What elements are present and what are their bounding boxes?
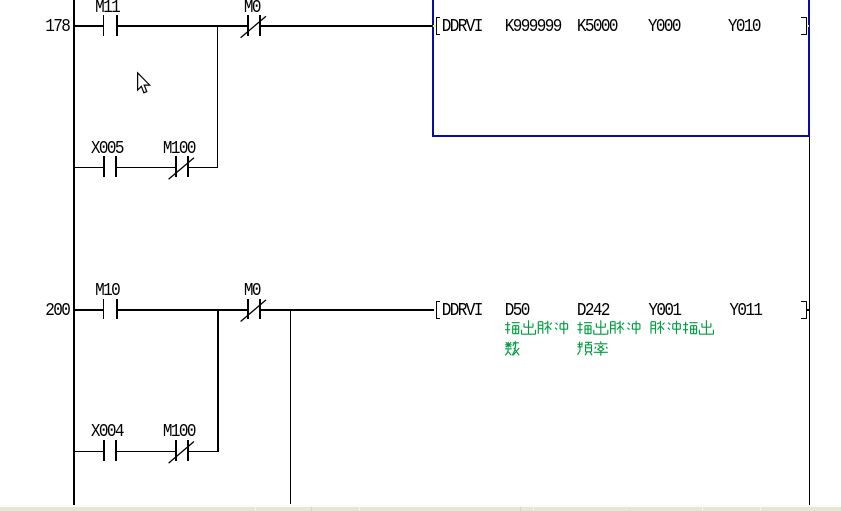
slash of NC contact M0 rung1	[241, 16, 266, 38]
close bracket rung1	[801, 17, 807, 36]
selection box (blue cursor rectangle)	[432, 0, 809, 137]
contact X004 bar2	[115, 440, 117, 461]
label X004	[91, 422, 123, 440]
label M0 rung2	[244, 281, 260, 299]
drop vertical to next rung	[290, 309, 292, 504]
open bracket rung2	[436, 301, 440, 320]
operand Y010	[728, 17, 760, 35]
contact X005 bar1	[103, 156, 105, 177]
comment text row1 group1: shu chu mai chong (output pulse) under D50	[505, 320, 567, 334]
contact X005 bar2	[115, 156, 117, 177]
branch2 wire seg3	[189, 451, 218, 453]
strip segment divider 1	[255, 506, 256, 511]
left power rail	[73, 0, 75, 505]
contact M0 rung2 bar1	[247, 299, 249, 320]
label M0	[244, 0, 260, 17]
label M100	[163, 139, 195, 157]
wire rung2 seg3	[261, 309, 435, 311]
contact M0 rung2 bar2	[259, 299, 261, 320]
branch2 wire seg1	[74, 451, 103, 453]
slash of NC contact M100 branch2	[169, 442, 194, 464]
label M10	[95, 281, 119, 299]
contact M10 bar2	[116, 299, 118, 320]
comment text row1 group2: shu chu mai chong under D242	[578, 320, 640, 334]
wire rung2 seg2	[118, 309, 247, 311]
close bracket rung2	[801, 301, 807, 320]
strip segment divider 6	[626, 506, 627, 511]
operand K999999	[505, 17, 561, 35]
comment text row2: shu (count) under D50	[505, 341, 519, 355]
open bracket rung1	[436, 17, 440, 36]
strip segment divider 3	[359, 506, 360, 511]
branch vertical rung1	[217, 25, 219, 168]
strip segment divider 2	[311, 507, 312, 511]
mouse cursor arrow	[138, 73, 150, 93]
yellow wire nub left	[433, 25, 437, 27]
label M100 rung2	[163, 422, 195, 440]
operand Y001	[648, 301, 680, 319]
instruction DDRVI rung1	[442, 17, 482, 35]
contact M100 bar2	[187, 156, 189, 177]
label X005	[91, 139, 123, 157]
operand K5000	[577, 17, 617, 35]
branch1 wire seg1	[74, 167, 103, 169]
contact M11 bar2	[116, 15, 118, 36]
comment text row2: pin lv (frequency) under D242	[578, 341, 608, 356]
contact M0 bar1	[247, 15, 249, 36]
contact X004 bar1	[103, 440, 105, 461]
wire rung1 seg2	[118, 25, 247, 27]
strip segment divider 7	[702, 506, 703, 511]
operand D242	[577, 301, 609, 319]
contact M11 bar1	[103, 15, 105, 36]
operand D50	[505, 301, 529, 319]
comment text row1 group3: mai chong shu chu (pulse output) under Y001	[651, 320, 713, 334]
contact M10 bar1	[103, 299, 105, 320]
contact M100 rung2 bar2	[187, 440, 189, 461]
yellow wire nub right	[806, 25, 810, 27]
strip segment divider 4	[520, 507, 521, 511]
contact M100 bar1	[175, 156, 177, 177]
right power rail	[809, 0, 811, 505]
branch vertical rung2	[217, 309, 219, 452]
operand Y000	[648, 17, 680, 35]
slash of NC contact M0 rung2	[241, 300, 266, 322]
bottom scrollbar strip	[0, 507, 841, 511]
branch2 wire seg2	[117, 451, 175, 453]
strip segment divider 5	[533, 506, 534, 511]
wire rung2 seg1	[74, 309, 103, 311]
wire rung1 seg3	[261, 25, 433, 27]
strip segment divider 8	[760, 506, 761, 511]
operand Y011	[729, 301, 761, 319]
branch1 wire seg2	[117, 167, 175, 169]
contact M100 rung2 bar1	[175, 440, 177, 461]
instruction DDRVI rung2	[442, 301, 482, 319]
slash of NC contact M100 branch1	[169, 158, 194, 180]
label M11	[95, 0, 119, 17]
wire rung1 seg1	[74, 25, 103, 27]
bottom scrollbar strip highlight	[0, 505, 841, 507]
rung number 200	[45, 301, 69, 319]
branch1 wire seg3	[189, 167, 218, 169]
contact M0 bar2	[259, 15, 261, 36]
wire nub bracket to rail rung2	[807, 309, 810, 311]
rung number 178	[45, 17, 69, 35]
